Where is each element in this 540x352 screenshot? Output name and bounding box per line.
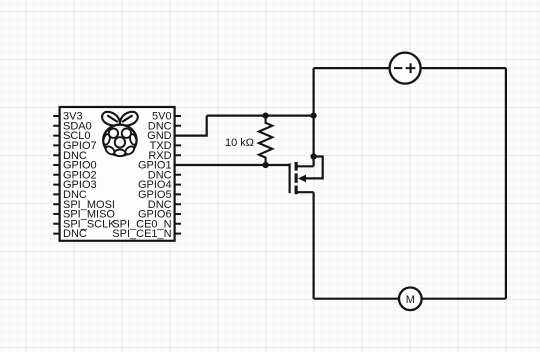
MOSFET Q1 body tie loop <box>305 157 323 179</box>
wire GPIO1 to gate <box>175 164 290 166</box>
wire bottom rail left of motor <box>314 298 399 300</box>
wire top rail left of source <box>314 67 390 69</box>
Raspberry Pi module U1 body <box>60 107 175 241</box>
V1 plus sign <box>406 63 416 73</box>
svg-text:SPI_CE1_N: SPI_CE1_N <box>112 228 171 240</box>
U1 left pin stubs <box>53 116 59 234</box>
voltage source V1 <box>390 53 421 84</box>
U1 right pin labels <box>112 111 171 241</box>
wire GND pin step to pull-up rail <box>175 116 207 136</box>
MOSFET Q1 body arrow <box>298 175 306 183</box>
svg-text:10 kΩ: 10 kΩ <box>225 137 254 149</box>
MOSFET Q1 channel bars <box>295 162 298 194</box>
junction dot drain / body tie <box>311 153 317 159</box>
svg-text:M: M <box>406 294 415 306</box>
junction dot top rail / drain branch <box>311 113 317 119</box>
U1 right pin stubs <box>175 116 181 234</box>
MOSFET Q1 source connection <box>298 191 314 193</box>
MOSFET Q1 drain connection <box>298 165 314 167</box>
motor M1 <box>399 288 422 311</box>
junction dot resistor bottom / gate <box>263 162 269 168</box>
wire source down to motor rail <box>313 192 315 299</box>
wire top rail right of source <box>421 67 506 69</box>
wire pull-up top rail <box>207 114 314 116</box>
wire bottom rail right of motor <box>422 298 506 300</box>
resistor R1 <box>259 116 272 165</box>
wire right return <box>505 68 507 299</box>
junction dot resistor top <box>263 113 269 119</box>
MOSFET Q1 gate line <box>289 163 291 193</box>
Raspberry Pi logo <box>102 112 138 156</box>
V1 minus sign <box>394 67 402 69</box>
svg-text:DNC: DNC <box>63 228 87 240</box>
U1 left pin labels <box>63 111 116 241</box>
wire supply drop to drain <box>313 68 315 166</box>
